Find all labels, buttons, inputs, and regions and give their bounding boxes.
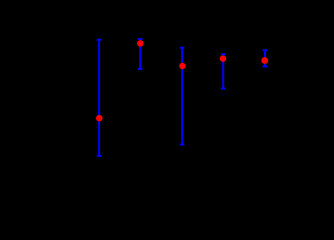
error bar 5 (data point 5)	[263, 50, 268, 66]
marker 5	[261, 57, 268, 64]
error bar 3 (data point 3)	[180, 48, 185, 145]
error bar 2 (data point 2)	[138, 39, 143, 69]
marker 1	[96, 115, 103, 122]
error bar 4 (data point 4)	[221, 54, 226, 88]
marker 2	[137, 40, 144, 47]
marker 3	[179, 63, 186, 70]
error bar 1 (data point 1)	[97, 40, 102, 156]
marker 4	[220, 55, 227, 62]
